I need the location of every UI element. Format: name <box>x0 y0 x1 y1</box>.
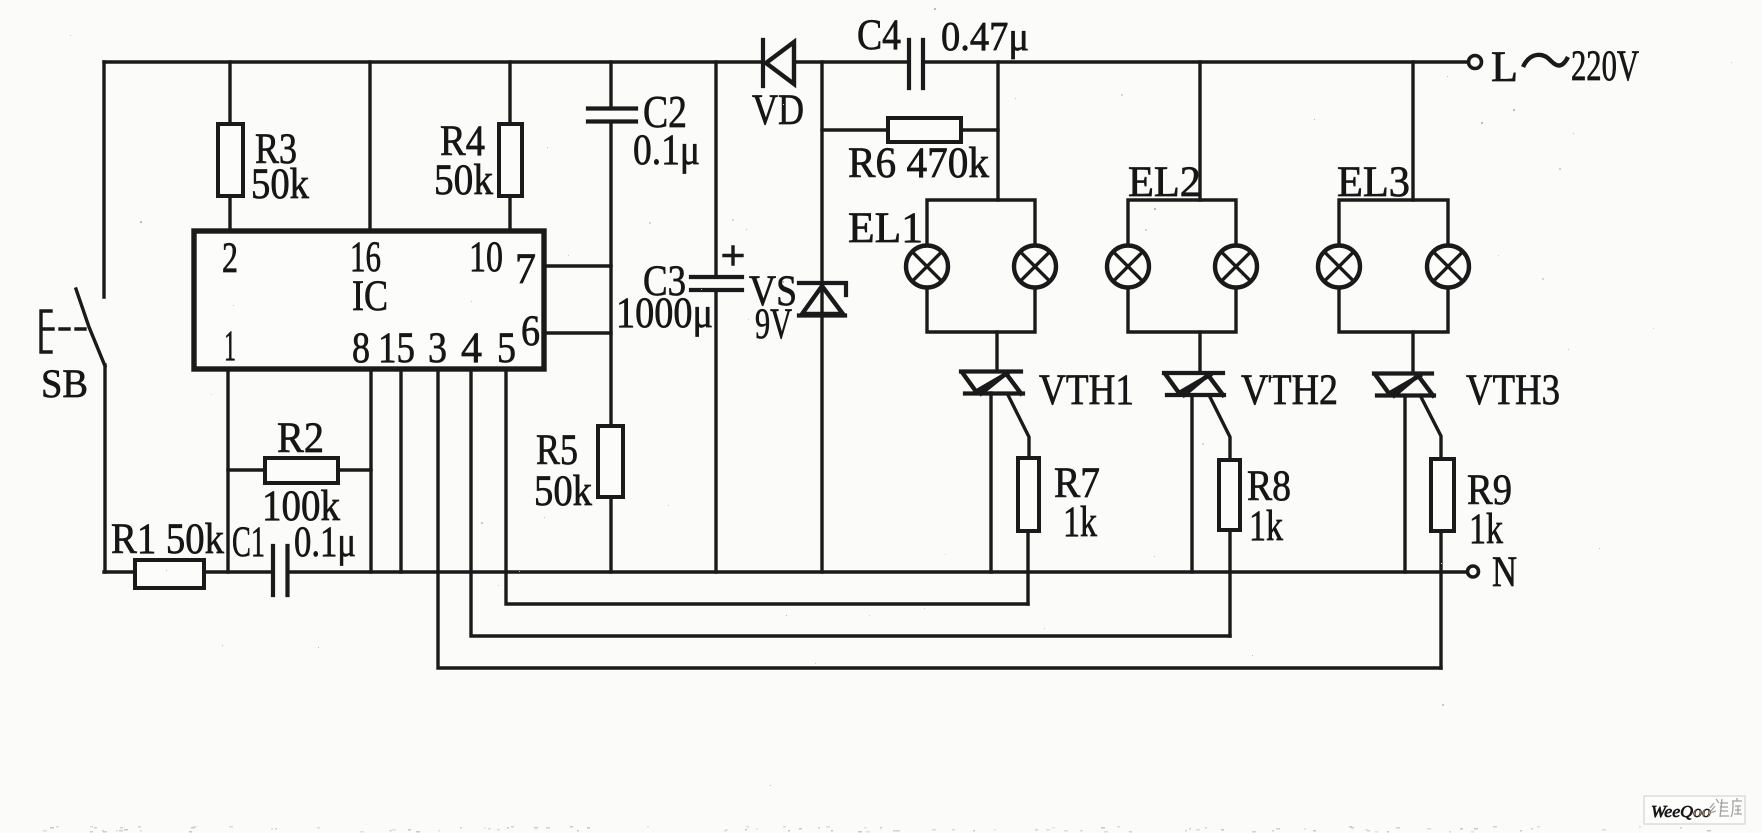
wire IC pin4 drop and trigger bus 2 <box>471 369 1230 636</box>
diode VD <box>763 40 794 86</box>
wire IC pin7 to node <box>544 264 611 267</box>
wire C2-R5 vertical line <box>609 62 612 572</box>
wire R2 branch <box>228 468 371 471</box>
wire IC pin8 drop <box>369 369 372 572</box>
terminal L <box>1469 56 1482 69</box>
svg-text:R6 470k: R6 470k <box>848 140 989 187</box>
zener diode VS <box>799 283 846 316</box>
svg-text:R5: R5 <box>536 427 578 474</box>
pin 5 <box>497 325 516 372</box>
svg-text:R1 50k: R1 50k <box>111 516 224 563</box>
svg-text:8: 8 <box>352 325 370 372</box>
triac VTH2 <box>1164 373 1224 395</box>
svg-text:9V: 9V <box>755 301 792 348</box>
resistor R1 <box>135 560 204 588</box>
capacitor C4 <box>909 40 923 88</box>
wire R6 branch <box>822 128 998 131</box>
label VTH3 <box>1466 367 1560 414</box>
svg-text:5: 5 <box>497 325 516 372</box>
wire bottom N rail <box>104 570 1467 573</box>
resistor R4 <box>499 124 522 196</box>
wire VTH2 gate <box>1210 397 1230 460</box>
svg-text:0.1μ: 0.1μ <box>294 519 356 566</box>
wire IC pin3 drop and trigger bus 3 <box>438 369 1441 668</box>
lamp group EL3 <box>1318 200 1469 332</box>
svg-text:15: 15 <box>378 325 415 372</box>
resistor R8 <box>1219 460 1240 530</box>
resistor R3 <box>218 124 243 196</box>
wire R8 to trigger bus 2 <box>1228 530 1231 636</box>
label R4 value 50k <box>434 118 493 204</box>
wire R7 to trigger bus 1 <box>1026 531 1029 604</box>
svg-text:16: 16 <box>350 234 381 281</box>
svg-text:220V: 220V <box>1571 43 1639 90</box>
wire VTH1 gate <box>1008 395 1029 458</box>
pin 10 <box>469 234 503 281</box>
svg-text:C1: C1 <box>232 519 265 566</box>
wire IC pin15 drop <box>399 369 402 572</box>
resistor R7 <box>1018 458 1039 531</box>
wire VTH1 MT2 to N rail <box>989 393 992 572</box>
svg-text:50k: 50k <box>434 157 493 204</box>
label SB <box>41 361 88 406</box>
label R7 value 1k <box>1054 460 1100 546</box>
svg-text:R2: R2 <box>277 415 324 462</box>
terminal N <box>1468 566 1479 577</box>
label C4 value 0.47u <box>857 12 1029 59</box>
label C2 value 0.1u <box>633 86 700 174</box>
svg-text:SB: SB <box>41 361 88 406</box>
wire VTH3 gate <box>1421 397 1441 459</box>
svg-text:1k: 1k <box>1249 503 1283 550</box>
wire IC pin16 branch <box>368 62 371 231</box>
wire R3 branch <box>228 62 231 231</box>
label R3 value 50k <box>251 126 309 208</box>
svg-text:50k: 50k <box>534 468 592 515</box>
label N <box>1492 549 1517 596</box>
svg-text:1: 1 <box>224 323 236 370</box>
label R2 value 100k <box>262 415 340 530</box>
wire top rail middle segment <box>796 60 908 63</box>
label C3 value 1000u <box>616 258 713 337</box>
svg-text:VTH3: VTH3 <box>1466 367 1560 414</box>
svg-text:6: 6 <box>521 308 540 355</box>
wire C3 vertical line <box>714 62 717 572</box>
svg-text:3: 3 <box>428 325 447 372</box>
pin 2 <box>222 235 238 282</box>
pin 6 <box>521 308 540 355</box>
wire VTH2 MT2 to N rail <box>1190 395 1193 572</box>
triac VTH3 <box>1374 374 1434 396</box>
svg-text:1k: 1k <box>1469 506 1503 553</box>
lamp group EL1 <box>906 200 1056 332</box>
svg-text:WeeQoo: WeeQoo <box>1651 802 1711 821</box>
wire VS vertical line <box>820 62 823 572</box>
svg-text:50k: 50k <box>251 161 309 208</box>
wire top rail right segment <box>924 60 1468 63</box>
svg-text:4: 4 <box>461 325 482 372</box>
svg-text:10: 10 <box>469 234 503 281</box>
label R8 value 1k <box>1247 463 1291 550</box>
wire EL2 feed from top rail <box>1198 62 1201 200</box>
wire left rail upper <box>102 62 105 297</box>
resistor R2 <box>265 458 338 483</box>
wire IC pin6 to node <box>544 331 611 334</box>
wire left rail lower <box>103 365 106 572</box>
wire R9 to trigger bus 3 <box>1439 531 1442 668</box>
label C3 plus sign <box>724 247 742 264</box>
capacitor C2 <box>588 109 636 122</box>
resistor R5 <box>598 426 623 497</box>
wire EL2 to VTH2 <box>1198 332 1201 373</box>
label IC <box>352 273 388 320</box>
watermark WeeQoo box <box>1644 796 1745 824</box>
lamp group EL2 <box>1107 200 1257 332</box>
svg-text:0.1μ: 0.1μ <box>633 127 700 174</box>
label C1 value 0.1u <box>294 519 356 566</box>
wire EL3 feed from top rail <box>1411 62 1414 200</box>
label VTH2 <box>1241 367 1338 414</box>
switch SB blade <box>76 289 105 366</box>
label EL2 <box>1128 159 1201 206</box>
resistor R6 <box>888 118 961 142</box>
svg-text:C4: C4 <box>857 12 901 59</box>
svg-text:VTH1: VTH1 <box>1039 367 1134 414</box>
svg-text:N: N <box>1492 549 1517 596</box>
svg-text:EL3: EL3 <box>1337 159 1410 206</box>
label EL1 <box>848 205 923 252</box>
pin 7 <box>515 246 536 293</box>
svg-text:EL2: EL2 <box>1128 159 1201 206</box>
label R5 value 50k <box>534 427 592 515</box>
svg-text:1k: 1k <box>1063 499 1097 546</box>
label C1 <box>232 519 265 566</box>
pin 4 <box>461 325 482 372</box>
capacitor C3 polarized <box>691 277 742 290</box>
label VTH1 <box>1039 367 1134 414</box>
label R1 value 50k <box>111 516 224 563</box>
op-amp IC box U1 <box>194 231 544 369</box>
svg-text:VD: VD <box>752 87 804 134</box>
wire IC pin5 drop and trigger bus 1 <box>506 369 1028 604</box>
pin 8 <box>352 325 370 372</box>
wire EL1 to VTH1 <box>995 332 998 371</box>
label R6 value 470k <box>848 140 989 187</box>
svg-text:EL1: EL1 <box>848 205 923 252</box>
pin 3 <box>428 325 447 372</box>
wire R4 branch <box>508 62 511 231</box>
svg-text:2: 2 <box>222 235 238 282</box>
switch SB pushbutton actuator <box>41 311 90 352</box>
label R9 value 1k <box>1467 467 1512 553</box>
wire EL1 feed from top rail <box>996 62 999 200</box>
wire top rail (L) left segment <box>104 60 761 63</box>
pin 15 <box>378 325 415 372</box>
pin 16 <box>350 234 381 281</box>
svg-text:0.47μ: 0.47μ <box>941 13 1029 59</box>
resistor R9 <box>1431 459 1454 531</box>
label L 220V <box>1491 43 1639 91</box>
wire EL3 to VTH3 <box>1411 332 1414 374</box>
svg-text:1000μ: 1000μ <box>616 290 713 337</box>
wire IC pin1 drop <box>226 369 229 572</box>
triac VTH1 <box>961 372 1023 394</box>
label VS value 9V <box>749 268 797 348</box>
wire VTH3 MT2 to N rail <box>1403 396 1406 573</box>
label VD <box>752 87 804 134</box>
label EL3 <box>1337 159 1410 206</box>
svg-text:VTH2: VTH2 <box>1241 367 1338 414</box>
svg-text:7: 7 <box>515 246 536 293</box>
svg-text:L: L <box>1491 44 1518 91</box>
capacitor C1 <box>273 546 288 595</box>
pin 1 <box>224 323 236 370</box>
